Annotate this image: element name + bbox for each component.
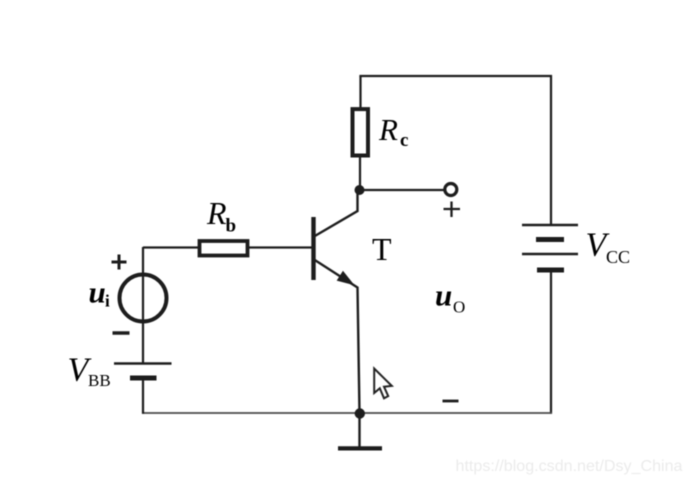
- svg-text:u: u: [89, 275, 106, 310]
- wire Vbb to bottom rail: [142, 378, 144, 414]
- svg-text:b: b: [226, 216, 237, 237]
- wire left vertical through source ui and battery Vbb: [142, 247, 144, 363]
- transistor T base bar: [311, 217, 315, 280]
- source ui minus sign: [113, 331, 130, 334]
- svg-text:R: R: [378, 112, 398, 147]
- wire Rc bottom to collector node: [359, 156, 361, 190]
- svg-text:R: R: [206, 195, 227, 231]
- wire Rc top to rail: [359, 76, 361, 109]
- source ui plus sign: [112, 255, 127, 270]
- svg-text:O: O: [453, 298, 465, 317]
- wire bottom rail: [142, 412, 552, 414]
- output terminal circle: [445, 184, 457, 196]
- svg-text:CC: CC: [606, 247, 630, 267]
- wire Vcc bottom to rail: [550, 270, 552, 414]
- battery Vcc plate long 1: [522, 224, 578, 226]
- output plus sign: [444, 202, 461, 218]
- mouse cursor: [374, 369, 392, 399]
- source ui circle: [120, 275, 167, 322]
- ground: [358, 414, 360, 448]
- battery Vbb short plate: [130, 376, 157, 381]
- wire base from node to Rb: [143, 246, 198, 248]
- wire right vertical to Vcc: [550, 75, 552, 225]
- transistor T emitter lead: [314, 260, 360, 414]
- resistor Rc: [353, 109, 369, 155]
- svg-text:c: c: [400, 130, 408, 151]
- wire collector node to output terminal: [360, 189, 445, 191]
- wire top rail: [359, 75, 552, 77]
- transistor T emitter arrow: [338, 272, 353, 285]
- transistor T collector lead: [314, 190, 358, 237]
- svg-text:T: T: [372, 231, 392, 267]
- svg-text:i: i: [105, 292, 110, 311]
- svg-text:u: u: [435, 278, 452, 313]
- resistor Rb: [200, 241, 248, 256]
- battery Vbb long plate: [114, 362, 172, 364]
- wire Rb to transistor base: [248, 246, 312, 248]
- svg-text:BB: BB: [88, 371, 111, 390]
- battery Vcc plate short 2: [537, 268, 564, 273]
- node emitter bottom junction dot: [355, 408, 365, 418]
- svg-text:https://blog.csdn.net/Dsy_Chin: https://blog.csdn.net/Dsy_China: [456, 458, 683, 475]
- output minus sign: [443, 400, 459, 403]
- node collector junction dot: [355, 185, 365, 195]
- battery Vcc plate short 1: [536, 237, 564, 242]
- battery Vcc plate long 2: [522, 253, 578, 255]
